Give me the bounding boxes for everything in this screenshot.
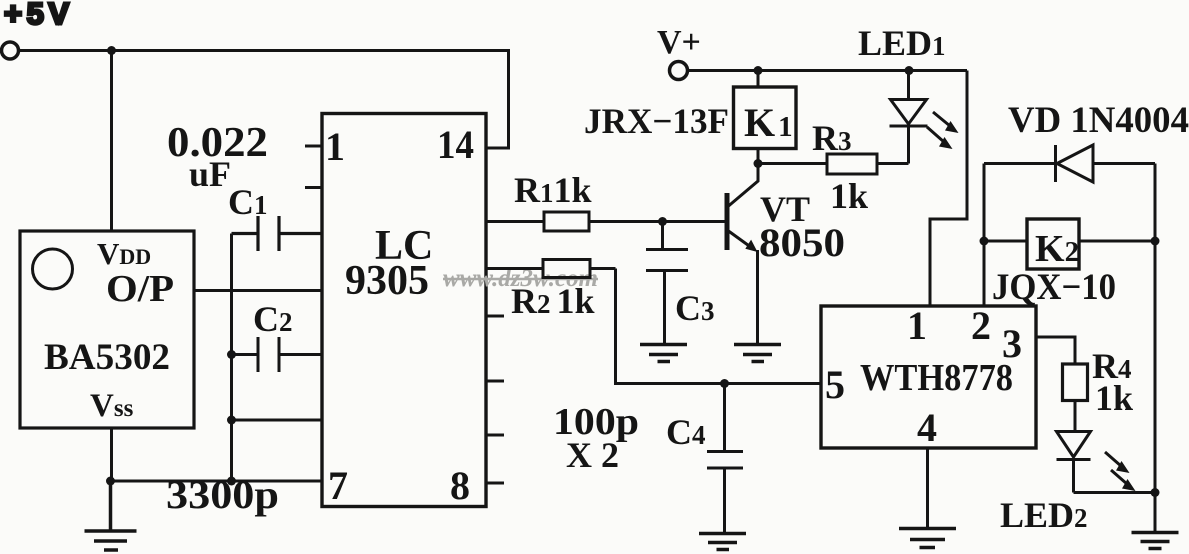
label 1k R3	[830, 176, 868, 216]
ground under BA5302	[85, 481, 137, 550]
watermark www.dz3w.com	[443, 265, 598, 292]
pin 2 label WTH	[971, 303, 991, 348]
junction V+/K1	[754, 66, 763, 75]
BA5302 index circle	[33, 249, 73, 289]
label V+	[657, 24, 701, 61]
wire VD left / pin 2	[983, 164, 986, 307]
label 3300p	[166, 472, 279, 517]
ground under C4	[699, 534, 746, 550]
svg-text:14: 14	[437, 122, 474, 167]
label R2 1k	[511, 281, 595, 321]
label R3	[812, 118, 852, 158]
junction V+/LED1	[905, 66, 914, 75]
LED2 light arrows	[1105, 452, 1136, 491]
wire R2 to pin 5	[616, 269, 822, 384]
pin label VDD	[97, 236, 151, 271]
junction +5V/VDD	[107, 46, 116, 55]
terminal +5V	[2, 42, 19, 59]
IC LC9305	[322, 114, 486, 507]
label LED1	[858, 23, 946, 63]
ground under C3	[640, 345, 687, 362]
svg-text:8: 8	[450, 463, 470, 508]
wire ground rail to pin 7	[111, 480, 323, 483]
label R1 1k	[514, 170, 592, 210]
capacitor C2	[232, 337, 323, 372]
capacitor C3	[646, 222, 688, 345]
resistor R3	[758, 154, 909, 174]
svg-text:1k: 1k	[830, 176, 868, 216]
pin 5 label WTH	[825, 362, 845, 407]
label 9305	[345, 258, 429, 304]
relay coil K1	[734, 87, 797, 149]
right stub a	[486, 315, 504, 318]
pin 1 label WTH	[907, 303, 927, 348]
IC WTH8778	[821, 306, 1036, 448]
svg-text:JQX−10: JQX−10	[992, 267, 1116, 308]
label VT	[760, 189, 810, 229]
svg-text:8050: 8050	[759, 220, 845, 265]
resistor R1	[486, 212, 663, 231]
resistor R4	[1063, 364, 1088, 401]
transistor VT emitter	[729, 231, 758, 252]
svg-text:O/P: O/P	[106, 268, 174, 310]
label C4	[666, 412, 706, 452]
wire pin 3	[1036, 337, 1075, 364]
pin 2 stub	[305, 186, 322, 189]
label LED2	[1000, 495, 1088, 535]
pin 8 label	[450, 463, 470, 508]
label JQX-10	[992, 267, 1116, 308]
svg-text:VD 1N4004: VD 1N4004	[1008, 100, 1189, 141]
LED1 light arrows	[927, 112, 959, 149]
label 1k R4	[1095, 378, 1133, 418]
svg-text:5: 5	[825, 362, 845, 407]
pin 3 label WTH	[1002, 321, 1022, 366]
label 100p	[553, 401, 639, 443]
ground right rail	[1132, 533, 1179, 549]
transistor VT base bar	[725, 193, 730, 250]
resistor R2	[486, 260, 616, 278]
label BA5302	[44, 337, 170, 378]
junction R1/C3/base	[658, 217, 667, 226]
wire +5V rail to pin 14	[19, 51, 509, 149]
svg-text:JRX−13F: JRX−13F	[584, 101, 729, 141]
LED2 diode	[1057, 401, 1091, 493]
ground under VT	[734, 345, 781, 362]
pin label O/P	[106, 268, 174, 310]
diode VD	[984, 145, 1155, 182]
label LC	[375, 223, 433, 269]
wire pin 4 to ground	[926, 448, 929, 528]
pin 7 label	[328, 463, 348, 508]
junction K2 right	[1151, 237, 1160, 246]
label C2	[253, 299, 293, 339]
right stub c	[486, 434, 504, 437]
svg-text:BA5302: BA5302	[44, 337, 170, 378]
svg-text:3300p: 3300p	[166, 472, 279, 517]
label K2	[1035, 228, 1079, 270]
right stub b	[486, 380, 504, 383]
wire LED2 to right rail	[1074, 491, 1156, 494]
svg-text:+5V: +5V	[4, 0, 74, 31]
pin 8 stub	[486, 482, 504, 485]
label K1	[744, 100, 793, 145]
ground pin 4	[899, 529, 956, 548]
wire right rail to ground	[1154, 493, 1157, 533]
svg-text:uF: uF	[189, 154, 231, 194]
wire emitter to ground	[756, 250, 759, 344]
junction K1/R3/collector	[754, 159, 763, 168]
junction C2/cap bus	[227, 350, 236, 359]
wire K1 bottom	[757, 149, 760, 164]
wire LED1 net to WTH pin 1	[930, 71, 967, 307]
capacitor C1	[232, 216, 323, 251]
label WTH8778	[860, 357, 1013, 399]
svg-text:9305: 9305	[345, 258, 429, 304]
label R4	[1092, 346, 1132, 386]
svg-text:1: 1	[325, 124, 345, 169]
svg-text:1: 1	[907, 303, 927, 348]
label VD 1N4004	[1008, 100, 1189, 141]
transistor VT collector	[729, 164, 759, 206]
wire VDD supply	[110, 51, 113, 232]
svg-text:7: 7	[328, 463, 348, 508]
label 0.022	[167, 120, 268, 166]
LED1 diode	[890, 71, 928, 164]
node +5V label	[4, 0, 74, 31]
pin 4 label WTH	[917, 405, 937, 450]
junction LED2/right rail	[1151, 488, 1160, 497]
IC BA5302	[20, 231, 194, 428]
wire V+ rail	[688, 69, 967, 72]
label 8050	[759, 220, 845, 265]
wire K2 left lead	[984, 240, 1027, 243]
pin label Vss	[90, 388, 134, 424]
junction Vss/ground rail	[106, 477, 115, 486]
terminal V+	[670, 62, 688, 80]
label C3	[675, 288, 715, 328]
label X 2	[566, 435, 619, 475]
label JRX-13F	[584, 101, 729, 141]
junction K2 left	[980, 237, 989, 246]
label C1	[228, 182, 268, 222]
label uF	[189, 154, 231, 194]
svg-text:3: 3	[1002, 321, 1022, 366]
wire BA5302 Vss down	[110, 428, 113, 481]
wire K1 top	[757, 71, 760, 88]
pin 1 stub	[305, 145, 322, 148]
svg-text:R11k: R11k	[514, 170, 592, 210]
svg-text:2: 2	[971, 303, 991, 348]
svg-text:1k: 1k	[1095, 378, 1133, 418]
pin 1 label	[325, 124, 345, 169]
capacitor C4	[707, 384, 743, 534]
wire cap bus vertical	[230, 234, 233, 482]
svg-text:V+: V+	[657, 24, 701, 61]
wire K2 right lead	[1079, 240, 1155, 243]
pin 14 label	[437, 122, 474, 167]
wire base	[663, 220, 726, 223]
wire VD right down	[1154, 164, 1157, 493]
junction cap bus lower	[227, 416, 236, 425]
svg-text:4: 4	[917, 405, 937, 450]
relay coil K2	[1027, 219, 1079, 269]
wire O/P output	[194, 289, 322, 292]
svg-text:WTH8778: WTH8778	[860, 357, 1013, 399]
junction ground rail / cap bus	[227, 477, 236, 486]
junction pin5/C4	[720, 379, 729, 388]
wire cap bus to LC pin	[232, 419, 323, 422]
svg-text:X 2: X 2	[566, 435, 619, 475]
